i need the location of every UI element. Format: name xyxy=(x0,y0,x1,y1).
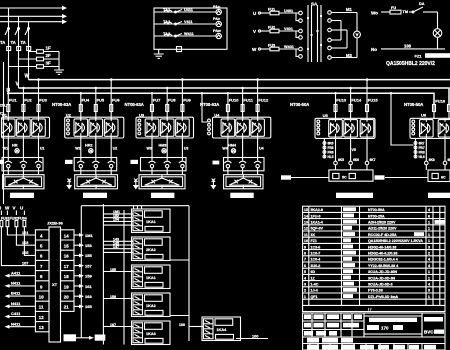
revision block text 1 xyxy=(307,338,319,343)
fuse FU32 xyxy=(6,220,35,235)
wire xyxy=(151,171,153,175)
wire xyxy=(166,138,168,158)
svg-text:HR: HR xyxy=(12,144,18,148)
svg-text:N411: N411 xyxy=(11,281,21,286)
wire drop phase U xyxy=(8,8,10,93)
wire xyxy=(110,171,112,175)
transformer input U xyxy=(253,11,270,16)
BOM row 7 xyxy=(304,257,430,262)
svg-text:159: 159 xyxy=(85,274,92,279)
svg-text:U: U xyxy=(20,206,23,211)
svg-text:5KA2-8: 5KA2-8 xyxy=(311,208,323,212)
wire tap xyxy=(7,92,10,95)
svg-text:154: 154 xyxy=(113,218,119,222)
title cell text 3 xyxy=(327,314,339,319)
svg-text:FU8: FU8 xyxy=(168,98,176,103)
svg-text:U4: U4 xyxy=(214,112,220,117)
svg-text:6: 6 xyxy=(304,264,306,268)
svg-text:1KA1: 1KA1 xyxy=(146,220,156,224)
svg-text:DA: DA xyxy=(419,2,425,6)
svg-text:QF1: QF1 xyxy=(311,295,318,299)
svg-text:3CUA-JD-3D-3N: 3CUA-JD-3D-3N xyxy=(368,276,396,280)
contactor pole xyxy=(20,157,27,171)
wire 1M1 xyxy=(74,233,94,238)
secondary terminal 4 xyxy=(328,38,341,42)
title cell text 9 xyxy=(343,323,359,328)
revision block text 5 xyxy=(322,345,338,350)
svg-text:U2: U2 xyxy=(113,147,118,151)
title cell text 11 xyxy=(316,331,326,336)
svg-text:QA1505HBL2 220V/2: QA1505HBL2 220V/2 xyxy=(386,61,435,67)
relay 1KA3 xyxy=(132,321,171,345)
transformer core windings xyxy=(307,5,322,62)
svg-text:2KA2: 2KA2 xyxy=(146,248,156,252)
gate terminal column U5 xyxy=(323,138,334,159)
wire tap xyxy=(241,87,244,90)
thyristor module U6 xyxy=(410,112,450,138)
ammeter row CT TA2 xyxy=(154,19,216,25)
revision row cells xyxy=(310,344,422,350)
secondary terminal 5 xyxy=(328,46,347,50)
svg-text:1: 1 xyxy=(428,239,430,243)
wire xyxy=(181,138,183,158)
terminal block XT body xyxy=(49,227,61,342)
svg-text:U401: U401 xyxy=(284,9,293,13)
svg-text:M1: M1 xyxy=(346,7,352,12)
SCR cell xyxy=(236,117,250,138)
svg-text:167: 167 xyxy=(110,323,116,327)
secondary terminal 2 xyxy=(328,19,341,23)
output terminal 6K6 xyxy=(349,138,359,170)
svg-text:V401: V401 xyxy=(284,27,293,31)
wire xyxy=(95,171,97,175)
wire xyxy=(151,138,153,158)
module gate terminals xyxy=(317,120,320,135)
control tap W xyxy=(5,206,10,216)
wire tap xyxy=(181,78,184,81)
ammeter box xyxy=(154,8,227,49)
title cell text 6 xyxy=(304,323,311,328)
wire 100 xyxy=(236,335,268,339)
terminal block XT left column xyxy=(35,230,49,332)
fuse 3F xyxy=(9,61,60,69)
wire xyxy=(22,138,24,158)
wire N411 xyxy=(5,321,36,328)
svg-text:BVC: BVC xyxy=(424,330,434,335)
relay 1KA4 input wire xyxy=(179,323,204,327)
svg-text:10: 10 xyxy=(39,295,44,300)
SCR cell xyxy=(104,117,118,138)
control tap V xyxy=(13,206,17,216)
ground xyxy=(54,70,64,74)
fuse FU4 lamp xyxy=(390,6,408,14)
label bar group 1 xyxy=(10,193,34,198)
relay 2KA2 input wires xyxy=(103,238,133,253)
SCR cell xyxy=(420,118,434,139)
wire xyxy=(227,171,229,175)
svg-text:PAu: PAu xyxy=(213,5,221,9)
control tap I xyxy=(0,206,1,216)
svg-text:FZ1: FZ1 xyxy=(311,239,317,243)
fuse FU3 xyxy=(268,44,299,51)
bottom strip text 2 xyxy=(378,345,389,350)
contactor pole xyxy=(179,157,186,171)
svg-text:U1: U1 xyxy=(40,147,45,151)
wire tap xyxy=(166,87,169,90)
fuse FU2 xyxy=(268,26,299,33)
svg-text:1: 1 xyxy=(428,227,430,231)
svg-text:3: 3 xyxy=(428,245,430,249)
terminal block bottom tag xyxy=(64,334,77,341)
bottom strip text 4 xyxy=(409,345,419,350)
svg-text:FU4: FU4 xyxy=(82,98,90,103)
svg-text:FZ1: FZ1 xyxy=(415,54,423,59)
thyristor module U5 xyxy=(315,113,375,138)
gate feed wire xyxy=(201,92,208,122)
svg-text:NT00-63A: NT00-63A xyxy=(200,102,219,107)
SCR cell xyxy=(221,117,235,138)
wire B411 xyxy=(5,291,36,298)
voltmeter xyxy=(354,31,361,38)
svg-text:1C0-7: 1C0-7 xyxy=(311,252,321,256)
svg-text:15: 15 xyxy=(64,244,69,249)
svg-text:8: 8 xyxy=(304,252,306,256)
svg-text:FU12: FU12 xyxy=(258,98,269,103)
output terminal 6K5 xyxy=(334,138,344,170)
wire tap xyxy=(37,78,40,81)
SCR cell xyxy=(438,118,450,139)
svg-text:FU6: FU6 xyxy=(112,98,120,103)
svg-text:5: 5 xyxy=(304,270,306,274)
svg-text:3: 3 xyxy=(428,289,430,293)
wire to terminal block xyxy=(281,175,329,179)
BOM row 4 xyxy=(304,276,430,281)
label bar group 6 xyxy=(428,193,450,198)
resistor FZ1 xyxy=(415,53,450,58)
svg-text:FU10: FU10 xyxy=(229,98,240,103)
relay 1KA2 input wire xyxy=(103,295,133,299)
svg-text:FR7: FR7 xyxy=(419,146,425,150)
SCR cell xyxy=(176,117,190,138)
wire xyxy=(166,112,168,119)
svg-text:4: 4 xyxy=(428,258,430,262)
revision block text 2 xyxy=(322,338,338,343)
svg-text:1: 1 xyxy=(304,295,306,299)
wire xyxy=(38,138,40,158)
wire xyxy=(7,112,9,119)
revision block text 3 xyxy=(341,338,353,343)
ammeter PAu xyxy=(213,5,221,15)
svg-text:14: 14 xyxy=(64,233,69,238)
svg-text:W4: W4 xyxy=(222,147,227,151)
svg-text:U3: U3 xyxy=(139,112,145,117)
BOM row 15 xyxy=(304,207,430,212)
secondary terminal 3 xyxy=(328,28,347,32)
svg-text:4: 4 xyxy=(428,208,430,212)
wire xyxy=(7,171,9,175)
contactor pole xyxy=(5,157,12,171)
BOM row 10 xyxy=(304,238,430,243)
contactor pole xyxy=(92,157,99,171)
wire tap xyxy=(151,92,154,95)
SCR cell xyxy=(89,117,103,138)
load box 5C xyxy=(329,170,373,181)
svg-text:6K5: 6K5 xyxy=(338,158,344,162)
SCR cell xyxy=(17,117,31,138)
svg-text:PAw: PAw xyxy=(213,29,221,33)
svg-text:W2: W2 xyxy=(75,147,80,151)
thyristor module U3 xyxy=(136,112,194,138)
svg-text:FU31FU32FU34: FU31FU32FU34 xyxy=(1,216,27,220)
svg-text:1C0-4: 1C0-4 xyxy=(311,258,321,262)
svg-text:6K7: 6K7 xyxy=(370,158,376,162)
wire tap xyxy=(227,92,230,95)
svg-text:XT: XT xyxy=(52,282,58,287)
wire 153 xyxy=(74,243,92,248)
fuse 2F xyxy=(19,53,60,61)
ground arrow xyxy=(133,179,139,190)
supply line L1 xyxy=(0,6,67,11)
fuse FU14 xyxy=(349,87,362,119)
svg-text:12: 12 xyxy=(304,227,308,231)
title cell text 7 xyxy=(314,323,324,328)
node No label xyxy=(371,44,445,53)
primary terminal 4 xyxy=(296,31,302,39)
bottom strip text 3 xyxy=(393,345,405,350)
svg-text:3U0-2: 3U0-2 xyxy=(311,264,321,268)
relay 1KA1 input wires xyxy=(103,210,133,225)
relay 1KA2 xyxy=(132,293,171,317)
svg-text:1-4C: 1-4C xyxy=(311,283,319,287)
wire xyxy=(242,171,244,175)
svg-text:6K6: 6K6 xyxy=(353,158,359,162)
wire lamp drop xyxy=(437,12,439,29)
SCR cell xyxy=(344,118,358,139)
relay 1KA4 xyxy=(202,317,241,341)
wire xyxy=(242,112,244,119)
svg-text:FU1: FU1 xyxy=(9,98,17,103)
BVC label xyxy=(424,330,444,335)
BOM row 5 xyxy=(304,269,430,274)
svg-text:5QF-8V: 5QF-8V xyxy=(311,227,324,231)
svg-text:V: V xyxy=(253,29,256,34)
control rail right xyxy=(188,206,190,341)
svg-text:17: 17 xyxy=(64,264,69,269)
svg-text:HM3: HM3 xyxy=(159,144,167,148)
title block frame xyxy=(303,313,445,350)
control rail inner xyxy=(123,210,125,345)
BOM row 9 xyxy=(304,245,430,250)
BOM row 2 xyxy=(304,288,430,293)
contactor pole xyxy=(77,157,84,171)
label bar group 5 xyxy=(336,193,373,198)
svg-text:W411: W411 xyxy=(184,32,194,36)
relay K1 top stubs xyxy=(134,206,142,209)
contactor KM4 label block xyxy=(213,161,220,165)
svg-text:100: 100 xyxy=(179,323,185,327)
svg-text:PAv: PAv xyxy=(213,17,221,21)
svg-text:HL6: HL6 xyxy=(419,155,425,159)
lamp HM3 xyxy=(159,144,167,154)
title cell text 8 xyxy=(327,323,339,328)
svg-text:4: 4 xyxy=(428,283,430,287)
svg-text:FU2: FU2 xyxy=(24,98,32,103)
primary terminal 1 xyxy=(299,11,303,15)
svg-text:153: 153 xyxy=(85,243,92,248)
control rail left xyxy=(102,204,104,345)
heater load 3C box xyxy=(139,175,185,189)
wire lamp to No xyxy=(437,37,439,49)
svg-text:3CUA-JD-3D-3: 3CUA-JD-3D-3 xyxy=(368,283,393,287)
lamp HM4 xyxy=(228,144,237,154)
primary terminal 3 xyxy=(299,29,303,33)
svg-text:NT00-63A: NT00-63A xyxy=(52,102,71,107)
svg-text:7: 7 xyxy=(304,258,306,262)
svg-text:JX2B-36: JX2B-36 xyxy=(47,221,64,226)
wire 165 xyxy=(74,304,92,309)
title cell text 2 xyxy=(314,314,324,319)
BOM parts table xyxy=(303,206,445,311)
svg-text:6R7: 6R7 xyxy=(419,142,425,146)
svg-text:FR5: FR5 xyxy=(328,146,334,150)
svg-text:6C: 6C xyxy=(441,175,446,179)
CT TA2 xyxy=(17,47,21,51)
bottom strip text 5 xyxy=(424,345,436,350)
svg-text:12: 12 xyxy=(39,315,44,320)
SCR cell xyxy=(251,117,265,138)
contactor KM2 xyxy=(74,158,117,171)
wire xyxy=(80,171,82,175)
output terminal 6K8 xyxy=(425,138,435,170)
SCR cell xyxy=(360,118,374,139)
svg-text:FU: FU xyxy=(391,6,396,10)
svg-text:11: 11 xyxy=(39,305,44,310)
svg-text:FU16: FU16 xyxy=(435,99,446,104)
svg-text:19: 19 xyxy=(64,284,69,289)
svg-text:HDG2-40-6.2/0.38: HDG2-40-6.2/0.38 xyxy=(368,252,397,256)
svg-text:TA: TA xyxy=(21,40,26,45)
heater load 4C box xyxy=(224,175,263,189)
svg-text:FY8-0.38: FY8-0.38 xyxy=(368,289,383,293)
switch SA1 xyxy=(409,2,438,13)
svg-text:FU15: FU15 xyxy=(368,98,379,103)
CT TA3 xyxy=(27,47,31,51)
SCR cell xyxy=(2,117,16,138)
module gate terminals xyxy=(138,119,141,135)
output terminal 6K9 xyxy=(443,138,450,170)
gate terminal column U6 xyxy=(414,138,425,159)
svg-text:165: 165 xyxy=(85,304,92,309)
left control rail I xyxy=(3,62,5,204)
svg-text:1M1: 1M1 xyxy=(85,233,94,238)
wire xyxy=(181,112,183,119)
SCR cell xyxy=(145,117,159,138)
title cell text 10 xyxy=(304,331,313,336)
svg-text:1: 1 xyxy=(428,276,430,280)
svg-text:1FU-0: 1FU-0 xyxy=(311,214,321,218)
ammeter PAw xyxy=(213,29,221,39)
primary terminal 6 xyxy=(296,49,302,58)
relay 1KA1b input wire xyxy=(103,268,133,272)
fuse 1F xyxy=(29,46,60,54)
primary terminal 2 xyxy=(296,13,302,22)
fuse FU16 xyxy=(433,99,446,120)
svg-text:HL5: HL5 xyxy=(328,155,334,159)
bus U xyxy=(9,93,435,104)
drawing stamp box xyxy=(364,316,422,334)
wire 159 xyxy=(74,274,92,279)
wire xyxy=(7,138,9,158)
relay section top wire xyxy=(81,205,189,207)
svg-text:101: 101 xyxy=(22,231,28,235)
load box 6C xyxy=(428,170,450,182)
revision block text 6 xyxy=(341,345,355,350)
wire 163 xyxy=(74,294,92,299)
svg-text:103: 103 xyxy=(22,241,28,245)
contactor KM1 xyxy=(2,158,43,171)
svg-text:W1: W1 xyxy=(3,147,8,151)
BOM row 11 xyxy=(304,232,430,237)
svg-text:108: 108 xyxy=(404,44,412,49)
bottom strip text 1 xyxy=(360,345,374,350)
svg-text:5C: 5C xyxy=(342,175,347,179)
relay 2KA2 output stub xyxy=(170,259,189,261)
wire to tag xyxy=(76,335,105,341)
svg-text:157: 157 xyxy=(85,263,92,268)
thyristor module U1 xyxy=(2,112,50,138)
BOM row 13 xyxy=(304,220,430,225)
svg-text:TA: TA xyxy=(0,40,5,45)
svg-text:FU9: FU9 xyxy=(183,98,191,103)
fuse FU31 xyxy=(0,220,35,265)
svg-text:FU5: FU5 xyxy=(97,98,105,103)
svg-text:NT00-63A: NT00-63A xyxy=(125,102,144,107)
supply line L3 xyxy=(0,19,67,24)
svg-text:105: 105 xyxy=(22,251,28,255)
lamp HR xyxy=(12,144,19,154)
svg-text:9: 9 xyxy=(304,245,306,249)
disconnect switch QS blades xyxy=(5,28,30,36)
relay 1KA1 xyxy=(132,209,171,233)
wire xyxy=(242,138,244,158)
svg-text:1: 1 xyxy=(428,295,430,299)
node Wo label xyxy=(371,11,390,16)
svg-text:18: 18 xyxy=(64,274,69,279)
resistor on ammeter box bottom xyxy=(177,47,182,52)
svg-text:NT00-50A: NT00-50A xyxy=(404,102,423,107)
wire drop phase V xyxy=(18,16,20,88)
svg-text:FR6: FR6 xyxy=(328,151,334,155)
wire tap xyxy=(80,92,83,95)
svg-text:N411: N411 xyxy=(11,301,21,306)
wire drop phase W xyxy=(28,22,30,80)
svg-text:3CUA-JD-JD-30N: 3CUA-JD-JD-30N xyxy=(368,270,398,274)
contactor pole xyxy=(108,157,115,171)
svg-text:M3: M3 xyxy=(346,53,352,58)
svg-text:100: 100 xyxy=(252,335,258,339)
svg-text:147: 147 xyxy=(113,245,119,249)
svg-text:14: 14 xyxy=(304,214,308,218)
fuse FU17 xyxy=(448,105,450,120)
BOM extra marks xyxy=(368,220,445,312)
riser to terminal tag xyxy=(80,206,82,338)
svg-text:A411: A411 xyxy=(11,270,21,275)
svg-text:I: I xyxy=(0,206,1,211)
BOM row 3 xyxy=(304,282,430,287)
svg-text:4: 4 xyxy=(304,276,306,280)
lamp HL xyxy=(433,29,442,38)
wire xyxy=(151,112,153,119)
